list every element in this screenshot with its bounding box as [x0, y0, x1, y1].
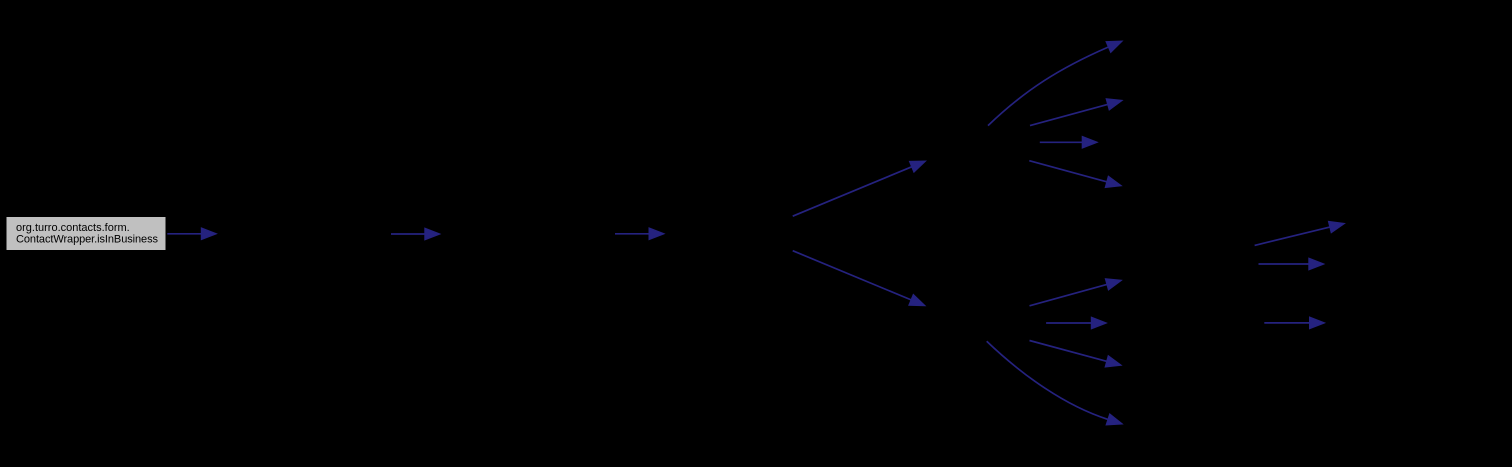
edge E->T7 — [1030, 341, 1122, 368]
edge C->E — [793, 251, 925, 306]
edge D->T2 — [1030, 99, 1122, 126]
node main: org.turro.contacts.form.ContactWrapper.isInBusiness (grey filled) — [6, 217, 166, 251]
edge A->B — [391, 228, 440, 240]
edge G->T11 — [1264, 317, 1324, 329]
svg-text:org.turro.contacts.form.: org.turro.contacts.form. — [16, 222, 130, 234]
svg-text:ContactWrapper.isInBusiness: ContactWrapper.isInBusiness — [16, 234, 159, 246]
edge F->T9 — [1255, 221, 1345, 245]
edge main->A — [167, 228, 216, 240]
edge D->T1 curved — [988, 41, 1122, 126]
edge D->T3 — [1040, 136, 1098, 148]
edge E->T8 curved — [987, 341, 1123, 425]
edge B->C — [615, 228, 664, 240]
edge C->D — [793, 161, 926, 216]
edge E->T5 — [1030, 279, 1122, 306]
edge D->T4 — [1029, 161, 1121, 188]
edge E->T6 — [1046, 317, 1106, 329]
edge F->T10 — [1259, 258, 1325, 270]
